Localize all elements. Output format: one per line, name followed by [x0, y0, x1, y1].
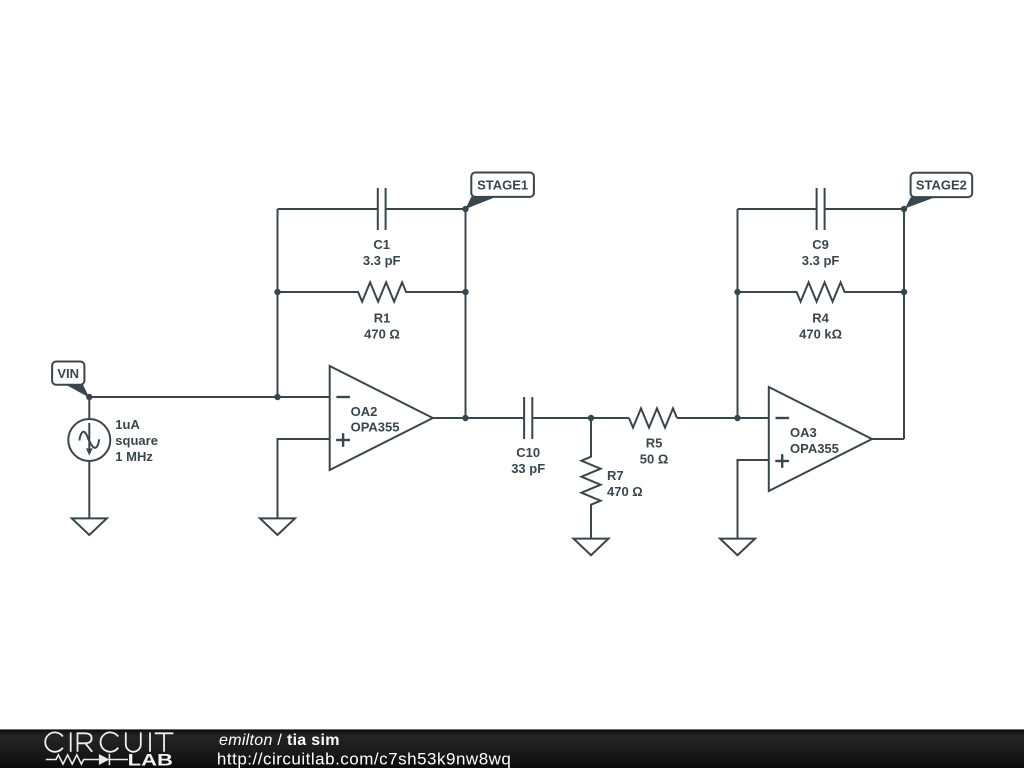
- wire source top lead: [88, 397, 90, 419]
- node dot R4 right: [901, 289, 907, 295]
- node dot stage1 output: [462, 415, 468, 421]
- node dot OA3 inverting: [734, 415, 740, 421]
- svg-text:OPA355: OPA355: [790, 441, 839, 456]
- op-amp OA2 minus pin: [336, 396, 350, 398]
- svg-text:R5: R5: [646, 436, 663, 451]
- label C1: [363, 237, 401, 268]
- capacitor C9: [817, 188, 825, 230]
- svg-text:STAGE1: STAGE1: [477, 177, 528, 192]
- wire stage2 C9 to node: [825, 208, 904, 210]
- ground below OA2 plus: [260, 518, 295, 535]
- node flag VIN: [52, 362, 89, 398]
- op-amp OA3 plus pin: [775, 454, 789, 468]
- svg-text:OPA355: OPA355: [351, 420, 400, 435]
- wire stage2 top left to C9: [738, 208, 817, 210]
- svg-text:VIN: VIN: [57, 366, 79, 381]
- node flag STAGE2: [905, 173, 972, 209]
- label I1 value: [115, 417, 158, 464]
- wire stage1 left feedback rail: [277, 209, 279, 397]
- node flag STAGE1: [466, 173, 534, 210]
- logo diode triangle: [99, 754, 109, 765]
- wire stage2 left feedback rail: [737, 209, 739, 418]
- wire OA3 output: [872, 438, 904, 440]
- ground below source: [72, 518, 107, 535]
- svg-text:C10: C10: [516, 445, 540, 460]
- capacitor C10: [524, 397, 532, 439]
- resistor R1: [278, 282, 466, 301]
- svg-text:OA3: OA3: [790, 425, 817, 440]
- wire source bottom lead: [88, 461, 90, 518]
- svg-text:R1: R1: [374, 311, 391, 326]
- label R1: [364, 311, 400, 342]
- label C10: [511, 445, 545, 476]
- svg-text:1 MHz: 1 MHz: [115, 449, 153, 464]
- capacitor C1: [378, 188, 386, 230]
- op-amp OA3: [769, 387, 872, 491]
- ground below R7: [574, 539, 609, 556]
- wire stage1 C1 to node: [386, 208, 466, 210]
- resistor R7: [581, 418, 600, 539]
- wire stage1 right rail: [465, 209, 467, 418]
- svg-text:R7: R7: [607, 468, 624, 483]
- logo CIRCUIT text: [45, 732, 173, 751]
- resistor R4: [738, 282, 905, 301]
- svg-text:C9: C9: [812, 237, 829, 252]
- label R7: [607, 468, 643, 499]
- node dot STAGE2: [901, 206, 907, 212]
- op-amp OA2: [330, 366, 433, 470]
- svg-text:STAGE2: STAGE2: [916, 178, 967, 193]
- logo resistor-diode line: [46, 754, 128, 765]
- node dot C10 R7 junction: [588, 415, 594, 421]
- label OA3: [790, 425, 839, 456]
- op-amp OA2 plus pin: [336, 433, 350, 447]
- svg-text:3.3 pF: 3.3 pF: [802, 253, 840, 268]
- node dot R4 left: [734, 289, 740, 295]
- node dot VIN: [86, 394, 92, 400]
- svg-text:470 Ω: 470 Ω: [364, 327, 400, 342]
- svg-text:C1: C1: [373, 237, 390, 252]
- wire stage2 right rail: [903, 209, 905, 439]
- label OA2: [351, 404, 400, 435]
- wire VIN row: [89, 396, 329, 398]
- svg-text:square: square: [115, 433, 158, 448]
- svg-text:LAB: LAB: [128, 751, 173, 768]
- wire OA2 output row: [433, 417, 524, 419]
- ground below OA3 plus: [720, 539, 755, 556]
- current source I1 circle: [68, 419, 110, 461]
- svg-text:R4: R4: [812, 311, 829, 326]
- wire C10 to R5: [532, 417, 629, 419]
- svg-text:470 kΩ: 470 kΩ: [799, 327, 842, 342]
- wire stage1 top left to C1: [278, 208, 378, 210]
- svg-text:50 Ω: 50 Ω: [640, 452, 669, 467]
- wire OA2 plus to ground: [278, 439, 330, 518]
- node dot STAGE1: [462, 206, 468, 212]
- svg-text:1uA: 1uA: [115, 417, 140, 432]
- node dot R1 right: [462, 289, 468, 295]
- label R5: [640, 436, 669, 467]
- svg-text:emilton / tia sim: emilton / tia sim: [219, 732, 340, 749]
- current source I1 symbol: [79, 423, 99, 456]
- footer bar: [0, 729, 1024, 768]
- svg-text:3.3 pF: 3.3 pF: [363, 253, 401, 268]
- wire R5 to OA3: [677, 417, 769, 419]
- node dot R1 left: [274, 289, 280, 295]
- label R4: [799, 311, 842, 342]
- svg-text:470 Ω: 470 Ω: [607, 484, 643, 499]
- svg-text:33 pF: 33 pF: [511, 461, 545, 476]
- resistor R5: [629, 408, 677, 427]
- svg-text:http://circuitlab.com/c7sh53k9: http://circuitlab.com/c7sh53k9nw8wq: [217, 749, 511, 768]
- node dot OA2 inverting: [274, 394, 280, 400]
- op-amp OA3 minus pin: [776, 417, 790, 419]
- label C9: [802, 237, 840, 268]
- wire OA3 plus to ground: [738, 460, 769, 539]
- svg-text:OA2: OA2: [351, 404, 378, 419]
